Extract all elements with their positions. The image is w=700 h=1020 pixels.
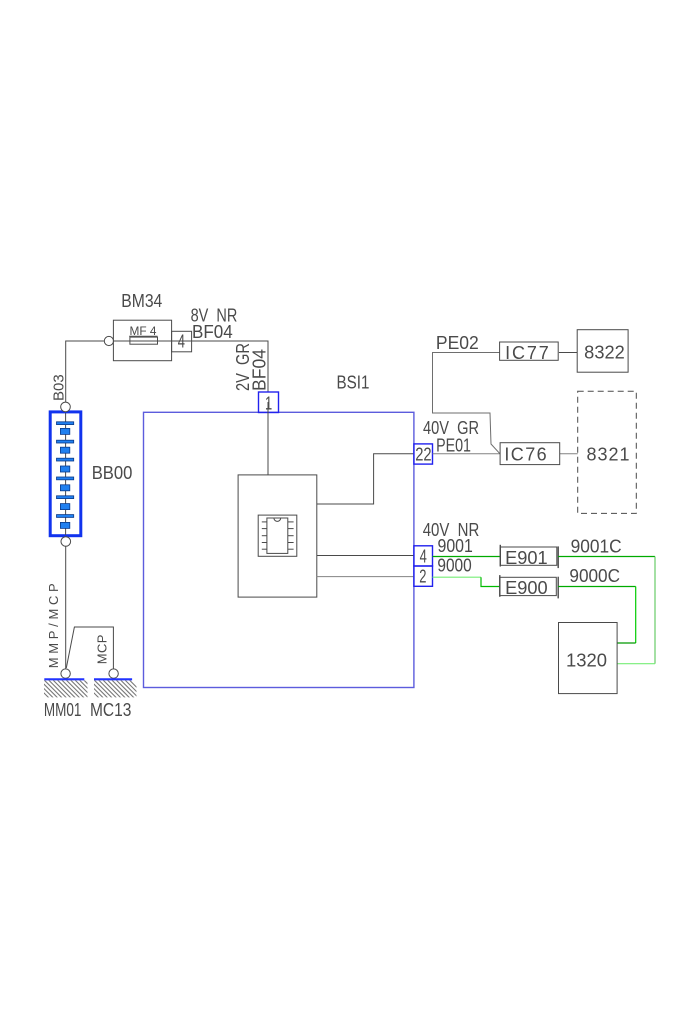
ground MC13 — [81, 679, 147, 698]
BSI pin 1 box — [259, 392, 279, 413]
svg-text:BSI1: BSI1 — [337, 372, 370, 392]
svg-text:9001: 9001 — [438, 536, 473, 556]
svg-text:1: 1 — [265, 393, 272, 413]
pin 4 of BM34 — [172, 331, 192, 352]
wire: battery B03 up to BM34 input — [66, 341, 105, 402]
ECU inner block of BSI — [238, 475, 317, 597]
wire: ECU block to pin 22 — [317, 454, 414, 504]
IC chip pins right — [288, 522, 294, 549]
svg-text:9001C: 9001C — [571, 537, 622, 557]
IC chip outer box — [258, 515, 297, 556]
svg-text:MCP: MCP — [94, 634, 109, 664]
svg-text:22: 22 — [415, 444, 431, 464]
BSI pin 2 box — [414, 566, 433, 587]
svg-text:1320: 1320 — [566, 651, 607, 671]
interconnector IC76 — [500, 443, 560, 465]
device 8322 — [577, 330, 628, 373]
svg-text:MMP/MCP: MMP/MCP — [46, 580, 61, 669]
battery BB00 — [50, 412, 81, 536]
wire: E901 to 1320 (green loop right) — [558, 557, 655, 664]
svg-text:E900: E900 — [505, 578, 548, 598]
ground MM01 — [31, 679, 102, 698]
splice E900 — [500, 575, 558, 598]
svg-text:BF04: BF04 — [249, 349, 269, 391]
connector circle battery bottom — [61, 537, 71, 547]
wire: IC76 branch up to IC77 — [433, 353, 501, 454]
svg-text:BB00: BB00 — [92, 463, 133, 483]
svg-text:PE02: PE02 — [436, 333, 479, 353]
battery internal wire — [65, 413, 67, 535]
svg-text:PE01: PE01 — [436, 436, 471, 456]
wire: IC77 to 8322 — [559, 352, 577, 354]
svg-text:BF04: BF04 — [192, 322, 233, 342]
wire: pin 1 down into ECU block — [267, 402, 269, 475]
connector circle ground MM01 — [61, 669, 70, 678]
svg-text:8321: 8321 — [587, 445, 631, 465]
fuse value label MF 4 underlined — [129, 326, 157, 338]
svg-text:4: 4 — [420, 547, 427, 567]
svg-text:9000: 9000 — [437, 555, 471, 575]
svg-text:2: 2 — [419, 567, 426, 587]
BSI pin 4 box — [414, 546, 433, 567]
splice E901 — [500, 545, 558, 568]
svg-text:IC77: IC77 — [505, 343, 551, 363]
connector circle battery top — [61, 402, 71, 412]
connector circle BM34 input — [104, 336, 113, 345]
wire: IC76 to 8321 (grey) — [560, 453, 578, 455]
wire: pin 4 to E901 (green) — [433, 556, 501, 558]
wire: circle through fuse box to pin 4 — [113, 341, 268, 392]
wire: pin 22 to IC76 (grey) — [433, 453, 501, 455]
device 8321 (dashed optional) — [578, 391, 637, 513]
svg-text:9000C: 9000C — [569, 566, 620, 586]
device 1320 — [559, 623, 618, 694]
svg-text:4: 4 — [178, 332, 185, 352]
svg-text:B03: B03 — [51, 374, 68, 401]
svg-text:MM01: MM01 — [44, 700, 82, 720]
svg-text:BM34: BM34 — [121, 291, 162, 311]
svg-text:IC76: IC76 — [504, 444, 548, 464]
BSI pin 22 box — [414, 444, 433, 464]
fuse element MF4 — [130, 337, 158, 344]
maxi fuse holder BM34 — [113, 320, 171, 361]
wire: E900 to 1320 (green loop) — [558, 587, 636, 644]
IC chip pins left — [262, 522, 267, 549]
svg-text:MC13: MC13 — [90, 700, 131, 720]
BSI1 unit box — [144, 412, 414, 687]
battery cells — [57, 422, 74, 529]
interconnector IC77 — [500, 342, 559, 363]
wire: pin 2 to E900 (light green + step) — [433, 577, 500, 586]
svg-text:8322: 8322 — [584, 343, 625, 363]
wire: branch to ground MC13 — [66, 627, 113, 669]
wire: battery to ground MM01 — [65, 546, 67, 669]
IC chip body with notch — [267, 518, 288, 553]
connector circle ground MC13 — [109, 669, 118, 678]
wire: ECU block to pin 4 — [317, 555, 414, 557]
svg-text:E901: E901 — [505, 548, 548, 568]
wire: ECU block to pin 2 (grey) — [317, 576, 414, 578]
